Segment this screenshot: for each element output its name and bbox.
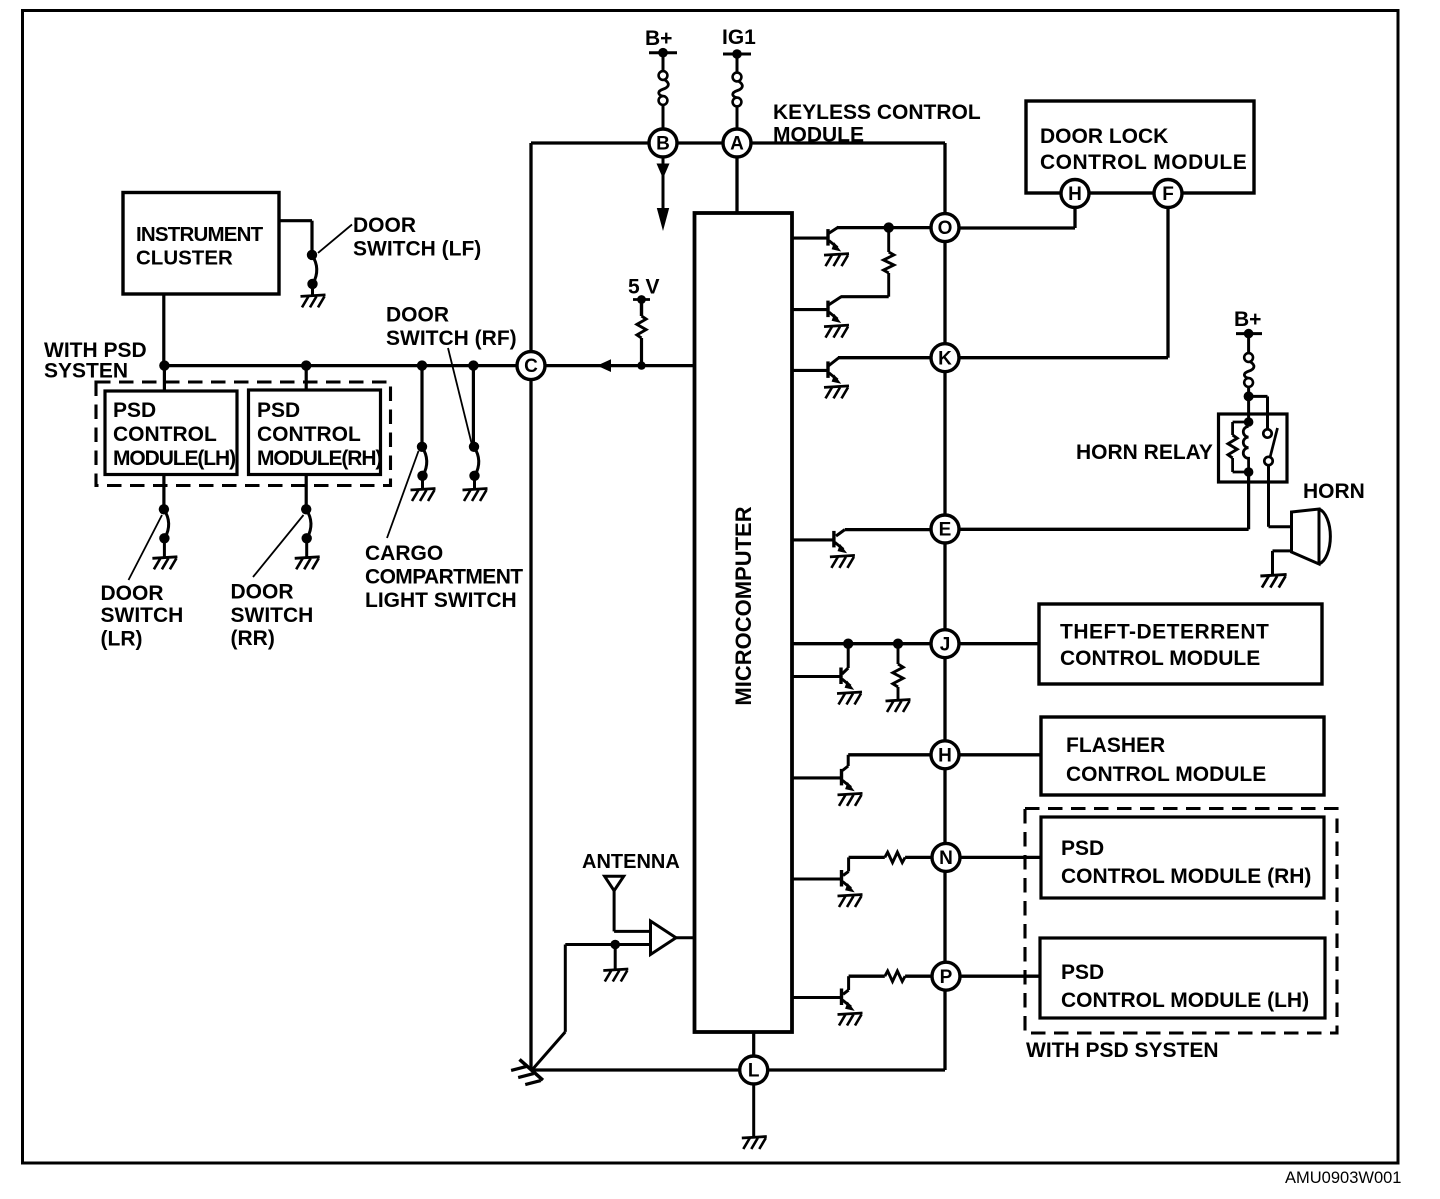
wire	[736, 54, 739, 72]
node P	[932, 962, 960, 990]
wire N row	[849, 856, 885, 859]
svg-text:AMU0903W001: AMU0903W001	[1285, 1169, 1401, 1187]
wire Q2 collector	[841, 295, 889, 298]
wire	[905, 856, 931, 859]
svg-text:CONTROL: CONTROL	[257, 423, 361, 446]
IG1 terminal	[723, 53, 751, 56]
wire J row	[792, 642, 931, 645]
node F (door lock)	[1154, 180, 1182, 208]
transistor Q5	[839, 668, 842, 685]
transistor Q3	[829, 357, 840, 366]
svg-text:INSTRUMENT: INSTRUMENT	[136, 223, 264, 246]
svg-text:L: L	[748, 1061, 760, 1082]
node A	[723, 129, 751, 157]
junction dot	[468, 360, 478, 370]
transistor Q4	[832, 531, 835, 548]
node N	[932, 843, 960, 871]
wire K collector row	[838, 356, 931, 359]
svg-text:MODULE: MODULE	[773, 124, 864, 147]
node B	[649, 129, 677, 157]
svg-text:SYSTEN: SYSTEN	[44, 360, 128, 383]
svg-text:(RR): (RR)	[231, 627, 275, 650]
transistor Q2 base wire	[792, 308, 827, 311]
wire P row	[849, 975, 885, 978]
svg-text:CONTROL MODULE: CONTROL MODULE	[1060, 647, 1260, 670]
wire cluster to C row	[162, 294, 165, 366]
wire O collector row	[837, 226, 931, 229]
transistor Q8 collector wire	[847, 976, 850, 990]
svg-text:CONTROL MODULE: CONTROL MODULE	[1040, 151, 1247, 174]
transistor Q7 base wire	[792, 877, 840, 880]
svg-text:5 V: 5 V	[628, 276, 660, 299]
junction dot	[843, 639, 853, 649]
wire to door switch RF	[472, 366, 475, 444]
fuse (horn)	[1244, 353, 1254, 387]
wire PSD LH to door switch LR	[162, 475, 165, 507]
5V terminal	[633, 298, 650, 301]
svg-text:E: E	[939, 520, 952, 541]
wire + junction	[1247, 387, 1250, 422]
svg-text:SWITCH (LF): SWITCH (LF)	[353, 238, 481, 261]
svg-text:B+: B+	[1234, 308, 1261, 331]
transistor Q8 base wire	[792, 996, 840, 999]
node H (door lock)	[1061, 180, 1089, 208]
svg-text:KEYLESS CONTROL: KEYLESS CONTROL	[773, 101, 981, 124]
wire to PSD RH	[305, 366, 308, 390]
svg-text:PSD: PSD	[1061, 961, 1104, 984]
resistor R3 (5V pull-up)	[640, 300, 643, 317]
wire	[736, 107, 739, 131]
svg-text:FLASHER: FLASHER	[1066, 734, 1165, 757]
svg-text:WITH PSD SYSTEN: WITH PSD SYSTEN	[1026, 1039, 1219, 1062]
resistor R1	[887, 228, 890, 252]
relay resistor	[1233, 421, 1249, 424]
relay switch	[1263, 429, 1271, 437]
wire horn to ground	[1273, 549, 1292, 552]
transistor Q6 collector wire	[847, 755, 850, 766]
wire	[905, 975, 931, 978]
wire PSD RH to door switch RR	[305, 475, 308, 507]
resistor R4	[885, 852, 905, 862]
microcomputer U1	[695, 213, 793, 1032]
transistor Q1 base wire	[792, 237, 827, 240]
svg-text:CONTROL MODULE: CONTROL MODULE	[1066, 763, 1266, 786]
wire: left vertical bus	[529, 143, 532, 1070]
svg-text:IG1: IG1	[722, 26, 756, 49]
wire E to horn relay	[959, 528, 1249, 531]
horn relay box	[1219, 414, 1288, 482]
cargo compartment light switch	[417, 442, 427, 452]
fuse (IG1)	[733, 73, 743, 107]
svg-text:C: C	[524, 356, 538, 377]
svg-text:B+: B+	[645, 27, 672, 50]
arrow below node B	[662, 157, 665, 224]
B+ terminal	[649, 51, 677, 54]
wire antenna to amplifier	[614, 930, 650, 933]
svg-text:THEFT-DETERRENT: THEFT-DETERRENT	[1060, 621, 1269, 644]
svg-text:DOOR LOCK: DOOR LOCK	[1040, 125, 1168, 148]
transistor Q6	[840, 769, 843, 786]
junction dot	[893, 639, 903, 649]
svg-text:SWITCH: SWITCH	[101, 604, 184, 627]
transistor Q5 base wire	[792, 675, 840, 678]
callout line	[129, 515, 163, 580]
wire E collector row	[845, 528, 931, 531]
resistor R5	[885, 971, 905, 981]
transistor Q5 collector wire	[847, 644, 850, 668]
callout line	[387, 451, 419, 538]
junction dot	[417, 360, 427, 370]
svg-text:MODULE(LH): MODULE(LH)	[113, 447, 235, 470]
node K	[931, 344, 959, 372]
ground (L)	[742, 1137, 767, 1150]
transistor Q1	[829, 227, 839, 234]
door switch (LR)	[159, 504, 169, 514]
ground (R2)	[886, 700, 911, 713]
wire L to ground	[752, 1084, 755, 1137]
callout line	[318, 225, 352, 253]
door switch (RF)	[469, 442, 479, 452]
svg-text:PSD: PSD	[113, 399, 156, 422]
node H	[931, 741, 959, 769]
svg-text:CLUSTER: CLUSTER	[136, 247, 233, 270]
svg-text:P: P	[940, 967, 953, 988]
wire amp to microcomputer	[676, 936, 695, 939]
svg-text:H: H	[1068, 184, 1082, 205]
svg-text:DOOR: DOOR	[231, 581, 294, 604]
svg-text:DOOR: DOOR	[101, 582, 164, 605]
wire to cargo switch	[420, 366, 423, 444]
PSD control module (RH) box	[249, 390, 381, 475]
transistor Q8	[840, 989, 843, 1006]
node O	[931, 214, 959, 242]
callout line	[448, 348, 472, 443]
svg-text:CONTROL MODULE (LH): CONTROL MODULE (LH)	[1061, 989, 1309, 1012]
B+ terminal	[1236, 332, 1262, 335]
PSD control module (RH) box	[1041, 817, 1324, 898]
antenna symbol	[605, 876, 624, 890]
wire J to theft-deterrent module	[959, 642, 1039, 645]
wire to PSD LH	[163, 366, 166, 391]
horn speaker symbol	[1292, 509, 1320, 564]
ground (horn)	[1260, 574, 1286, 587]
svg-text:PSD: PSD	[1061, 837, 1104, 860]
relay coil	[1244, 417, 1254, 427]
wire: bottom horizontal bus	[531, 1068, 945, 1071]
theft-deterrent control module box	[1039, 604, 1322, 684]
svg-text:HORN: HORN	[1303, 480, 1365, 503]
wire N to PSD RH module	[960, 856, 1041, 859]
flasher control module box	[1041, 717, 1324, 795]
wire P to PSD LH module	[960, 975, 1040, 978]
svg-text:(LR): (LR)	[101, 628, 143, 651]
wire F to node K row	[1166, 200, 1169, 358]
wire branch to relay switch	[1249, 395, 1268, 398]
wire lower amp input	[565, 943, 650, 946]
slanted chassis ground (bottom left)	[510, 1058, 543, 1091]
node C	[517, 352, 545, 380]
wire: C to microcomputer	[545, 364, 695, 367]
transistor Q2	[829, 297, 842, 306]
transistor Q4 base wire	[792, 538, 833, 541]
node J	[931, 630, 959, 658]
svg-text:H: H	[938, 745, 952, 766]
junction dot	[159, 360, 169, 370]
svg-text:O: O	[938, 218, 953, 239]
svg-text:SWITCH (RF): SWITCH (RF)	[386, 327, 517, 350]
svg-text:MODULE(RH): MODULE(RH)	[257, 447, 381, 470]
wire H row	[848, 753, 931, 756]
PSD control module (LH) box	[105, 391, 237, 475]
junction dot	[884, 222, 894, 232]
dashed box: with PSD system group (right)	[1025, 809, 1337, 1034]
instrument cluster box	[123, 193, 279, 295]
junction dot	[610, 940, 620, 950]
dashed box: with PSD system group	[96, 382, 391, 486]
svg-text:CONTROL MODULE (RH): CONTROL MODULE (RH)	[1061, 865, 1311, 888]
wire relay switch to horn	[1267, 465, 1270, 527]
wire to ground	[614, 945, 617, 970]
wire to door switch LF	[279, 219, 312, 222]
wire: right vertical bus	[943, 143, 946, 1070]
node E	[931, 515, 959, 543]
svg-text:DOOR: DOOR	[353, 214, 416, 237]
wire: top horizontal bus B-A row	[531, 141, 945, 144]
svg-text:J: J	[940, 634, 951, 655]
transistor Q7	[840, 870, 843, 887]
svg-text:CARGO: CARGO	[365, 542, 443, 565]
amplifier (buffer)	[651, 921, 677, 955]
wire H to flasher module	[959, 753, 1041, 756]
wire	[662, 53, 665, 71]
fuse (B+)	[659, 71, 669, 105]
svg-text:CONTROL: CONTROL	[113, 423, 217, 446]
wire to ground bus	[564, 945, 567, 1032]
svg-text:N: N	[939, 848, 953, 869]
wire: instrument cluster row	[163, 364, 518, 367]
transistor Q7 collector wire	[847, 857, 850, 871]
svg-text:SWITCH: SWITCH	[231, 604, 314, 627]
svg-text:K: K	[938, 348, 952, 369]
wire microcomputer to L	[752, 1032, 755, 1056]
ground (antenna input)	[603, 969, 628, 982]
transistor Q6 base wire	[792, 776, 840, 779]
arrow on wire	[597, 359, 611, 372]
door switch (RR)	[301, 504, 311, 514]
PSD control module (LH) box	[1040, 938, 1325, 1018]
svg-text:HORN RELAY: HORN RELAY	[1076, 441, 1213, 464]
door switch (LF)	[307, 250, 317, 260]
callout line	[253, 515, 304, 577]
junction dot	[301, 360, 311, 370]
node L	[740, 1056, 768, 1084]
wire	[1247, 334, 1250, 354]
svg-text:MICROCOMPUTER: MICROCOMPUTER	[731, 506, 756, 705]
svg-text:DOOR: DOOR	[386, 304, 449, 327]
svg-text:LIGHT SWITCH: LIGHT SWITCH	[365, 589, 517, 612]
svg-text:B: B	[656, 134, 670, 155]
svg-text:COMPARTMENT: COMPARTMENT	[365, 566, 523, 589]
wire H to node O row	[1073, 200, 1076, 228]
svg-text:PSD: PSD	[257, 399, 300, 422]
door lock control module box	[1026, 101, 1254, 193]
wire A to microcomputer	[735, 157, 738, 214]
resistor R2	[897, 644, 900, 664]
svg-text:ANTENNA: ANTENNA	[582, 851, 680, 873]
svg-text:A: A	[730, 134, 744, 155]
transistor Q3 base wire	[792, 369, 827, 372]
wire	[662, 105, 665, 130]
svg-text:F: F	[1162, 184, 1174, 205]
